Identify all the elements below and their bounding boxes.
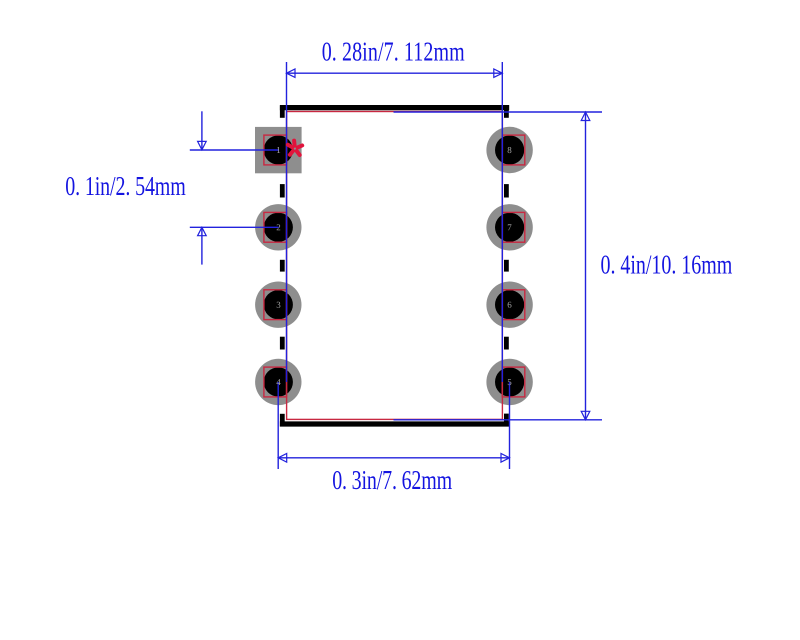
- pin 5 number: [508, 379, 512, 385]
- package body left edge bottom corner stub: [280, 414, 285, 427]
- arrow top of 0.4in dim: [581, 112, 590, 121]
- svg-text:0. 3in/7. 62mm: 0. 3in/7. 62mm: [332, 466, 452, 496]
- pitch dim lower vertical: [201, 228, 203, 265]
- dimension line 0.4in: [585, 112, 587, 420]
- arrow bottom of 0.4in dim: [581, 411, 590, 420]
- silkscreen body outline (red rectangle): [287, 112, 503, 420]
- package body left edge top corner stub: [280, 105, 285, 118]
- pad 7: [486, 204, 532, 250]
- component lead rect pin 2: [264, 212, 287, 242]
- extension line left column (row spacing dim): [277, 382, 279, 469]
- arrow left of 0.28in dim: [287, 69, 296, 77]
- svg-text:0. 1in/2. 54mm: 0. 1in/2. 54mm: [65, 172, 186, 202]
- component lead rect pin 3: [264, 290, 287, 320]
- extension line right (body width dim): [501, 62, 503, 382]
- package body right edge bottom corner stub: [504, 414, 509, 427]
- pin 7 number: [508, 224, 512, 230]
- pitch dim lower arrow (up): [198, 227, 207, 235]
- package body right edge dash 1: [504, 184, 509, 197]
- extension line top (body height dim): [394, 111, 603, 113]
- pad 5: [486, 359, 532, 405]
- component lead rect pin 6: [502, 290, 525, 320]
- extension line bottom (body height dim): [394, 419, 603, 421]
- dimension line 0.3in: [278, 457, 509, 459]
- package body top edge (black): [280, 105, 509, 110]
- pin 2 number: [277, 224, 281, 230]
- arrow right of 0.28in dim: [494, 69, 503, 77]
- pin 6 number: [508, 302, 512, 308]
- leader line pin1 row: [190, 149, 279, 151]
- pin 4 number: [276, 379, 280, 385]
- pin 8 number: [508, 147, 512, 153]
- pad 3: [255, 282, 301, 328]
- pad 2: [255, 204, 301, 250]
- component lead rect pin 8: [502, 135, 525, 165]
- pad 4: [255, 359, 301, 405]
- pin 1 marker asterisk: [288, 141, 302, 155]
- package body right edge dash 2: [504, 260, 509, 272]
- svg-text:0. 28in/7. 112mm: 0. 28in/7. 112mm: [322, 38, 465, 68]
- package body left edge dash 1: [280, 184, 285, 197]
- pad 6: [486, 282, 532, 328]
- svg-text:0. 4in/10. 16mm: 0. 4in/10. 16mm: [601, 251, 733, 281]
- component lead rect pin 4: [264, 367, 287, 397]
- component lead rect pin 1: [264, 135, 287, 165]
- package body left edge dash 2: [280, 260, 285, 272]
- extension line left (body width dim): [286, 62, 288, 382]
- pin 1 number: [277, 147, 280, 153]
- leader line pin2 row: [190, 226, 279, 228]
- component lead rect pin 5: [502, 367, 525, 397]
- package body right edge top corner stub: [504, 105, 509, 118]
- arrow right of 0.3in dim: [501, 454, 510, 463]
- extension line right column (row spacing dim): [509, 382, 511, 469]
- package body right edge dash 3: [504, 337, 509, 350]
- pitch dim upper arrow (down): [198, 141, 207, 149]
- package body bottom edge (black): [280, 421, 509, 426]
- pin 3 number: [277, 302, 281, 308]
- package body left edge dash 3: [280, 337, 285, 350]
- pad 1 (square pad): [255, 127, 302, 173]
- pad 8: [486, 127, 532, 173]
- component lead rect pin 7: [502, 212, 525, 242]
- arrow left of 0.3in dim: [278, 454, 287, 463]
- dimension line 0.28in: [287, 72, 503, 74]
- pitch dim upper vertical: [201, 111, 203, 149]
